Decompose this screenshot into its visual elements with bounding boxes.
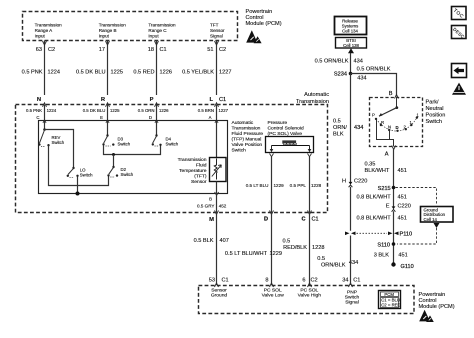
svg-text:Cell 134: Cell 134: [342, 29, 358, 34]
svg-text:0.8 BLK/WHT: 0.8 BLK/WHT: [356, 216, 391, 222]
0.35 BLK/WHT 451: [365, 162, 407, 174]
svg-text:1225: 1225: [110, 108, 120, 113]
svg-text:434: 434: [357, 76, 366, 82]
grommet P110 on BLK/WHT wire: [388, 232, 393, 236]
BTSI Cell 138 box: [336, 38, 367, 49]
svg-text:Input: Input: [35, 34, 46, 39]
svg-text:8: 8: [265, 278, 268, 284]
connector pin 18 C1: [155, 41, 159, 45]
wire D to PCM pin 8 (0.5 LT BLU/WHT 1229): [271, 213, 273, 286]
svg-text:Signal: Signal: [210, 34, 223, 39]
svg-text:Transmission: Transmission: [178, 157, 207, 163]
svg-text:Range A: Range A: [35, 28, 54, 33]
svg-text:451: 451: [398, 194, 407, 200]
warning triangle icon: [452, 83, 466, 95]
connector at PNP box bottom: [392, 146, 396, 150]
svg-text:Automatic: Automatic: [304, 92, 329, 98]
svg-text:0.5 DK BLU: 0.5 DK BLU: [83, 108, 106, 113]
junction dot on box bottom: [76, 192, 80, 196]
TOC button: [452, 7, 467, 20]
svg-text:Range C: Range C: [148, 28, 167, 33]
svg-text:53: 53: [209, 278, 215, 284]
svg-text:0.5 PPL: 0.5 PPL: [290, 183, 307, 188]
svg-text:P: P: [150, 97, 154, 103]
svg-text:C1: C1: [222, 278, 229, 284]
svg-text:Ground: Ground: [211, 293, 228, 299]
PCM pin labels row: [36, 47, 226, 53]
connector node N pin C: [43, 103, 47, 107]
connector node C C1: [308, 211, 312, 215]
svg-text:Sensor: Sensor: [191, 179, 207, 185]
connector pin 63 C2: [43, 41, 47, 45]
svg-text:C1: C1: [353, 278, 360, 284]
ESD triangle top: [246, 30, 261, 43]
TFP switch name label: [232, 120, 264, 154]
wire REV output down and to D2: [49, 146, 109, 186]
svg-text:D: D: [149, 115, 152, 120]
grommet P110 on ORN/BLK wire: [345, 232, 350, 236]
arrow up into BTSI: [348, 48, 354, 53]
wire 63/C2 to N: [44, 41, 46, 96]
LT BLU / PPL labels: [246, 183, 322, 188]
back arrow button: [452, 64, 467, 78]
svg-text:34: 34: [342, 278, 348, 284]
svg-text:D: D: [396, 125, 399, 130]
svg-text:BLK: BLK: [333, 132, 344, 138]
terminal TFP switch input P: [155, 120, 158, 123]
svg-text:(TFT): (TFT): [194, 174, 207, 180]
D4 switch: [152, 134, 179, 146]
wire sensor to M: [216, 182, 218, 213]
svg-text:3 BLK: 3 BLK: [374, 253, 390, 259]
svg-text:51: 51: [207, 47, 213, 53]
svg-text:Switch: Switch: [232, 148, 247, 154]
svg-text:C: C: [36, 115, 39, 120]
connector at inner box bottom (sensor return): [215, 192, 219, 195]
svg-text:C220: C220: [354, 179, 367, 185]
svg-text:C2: C2: [219, 47, 226, 53]
svg-text:C2 = RED: C2 = RED: [381, 303, 400, 308]
svg-text:S110: S110: [377, 243, 390, 249]
svg-text:Cell 14: Cell 14: [424, 217, 438, 222]
svg-text:S215: S215: [378, 186, 391, 192]
svg-text:ORN/: ORN/: [333, 125, 347, 131]
branch wire S234 to PNP B: [351, 74, 397, 97]
svg-text:(TFP) Manual: (TFP) Manual: [232, 137, 262, 143]
svg-text:434: 434: [354, 125, 363, 131]
svg-text:1227: 1227: [219, 70, 231, 76]
in-box wire labels: [26, 108, 229, 120]
connector at PNP box top: [395, 95, 399, 99]
0.8 BLK/WHT 451 (2): [356, 216, 406, 222]
svg-text:BLK/WHT: BLK/WHT: [365, 168, 390, 174]
svg-text:18: 18: [148, 47, 154, 53]
svg-text:0.5 BRN: 0.5 BRN: [198, 108, 214, 113]
connector node P pin D: [155, 103, 159, 107]
svg-text:Temperature: Temperature: [179, 168, 207, 174]
Park/Neutral Position Switch dashed box: [370, 98, 423, 147]
0.5 ORN/BLK 434 label top: [315, 59, 363, 65]
PNP internal wiring: [377, 120, 394, 147]
connector PCM pin 6 C2: [308, 283, 312, 287]
svg-text:Valve High: Valve High: [298, 293, 322, 299]
Powertrain Control Module (PCM) label top: [246, 9, 282, 27]
svg-text:E: E: [386, 204, 390, 210]
svg-text:0.5 RED: 0.5 RED: [133, 70, 154, 76]
svg-text:P: P: [372, 113, 375, 118]
PNP rotary switch: [372, 98, 420, 133]
svg-text:N: N: [388, 125, 391, 130]
wire node N to REV switch (0.5 PNK 1224, pin C): [44, 105, 46, 130]
svg-text:0.5 PNK: 0.5 PNK: [22, 70, 43, 76]
svg-text:451: 451: [398, 216, 407, 222]
connector node L pin A: [215, 103, 219, 107]
svg-text:C1: C1: [219, 97, 226, 103]
bottom pin row: [209, 278, 361, 284]
DESC button: [452, 26, 467, 40]
terminal TFP switch input R: [106, 120, 109, 123]
svg-text:Valve Low: Valve Low: [262, 293, 285, 299]
svg-text:0.5: 0.5: [333, 119, 341, 125]
BLK/WHT wire down to G110: [393, 149, 395, 263]
svg-text:H: H: [342, 179, 346, 185]
svg-text:PCM: PCM: [384, 292, 394, 297]
svg-text:E: E: [100, 115, 103, 120]
solenoid pin connectors: [270, 154, 312, 157]
svg-text:Park/: Park/: [426, 100, 440, 106]
REV switch: [38, 128, 65, 146]
0.5 ORN/BLK 434 vertical label: [333, 119, 347, 138]
svg-text:G110: G110: [401, 264, 414, 270]
svg-text:1229: 1229: [270, 251, 282, 257]
svg-text:0.5: 0.5: [283, 239, 291, 245]
wire REV to LO feed: [45, 130, 74, 168]
svg-text:Switch: Switch: [426, 119, 442, 125]
Park/Neutral Position Switch label: [426, 100, 446, 126]
junction dot on bus: [112, 153, 115, 156]
svg-text:407: 407: [220, 238, 229, 244]
svg-text:C1: C1: [160, 47, 167, 53]
wire node R to D3 switch (0.5 DK BLU 1225, pin E): [107, 105, 109, 136]
svg-text:0.5 YEL/BLK: 0.5 YEL/BLK: [182, 70, 214, 76]
ESD triangle bottom: [419, 310, 434, 322]
svg-text:Module (PCM): Module (PCM): [246, 21, 282, 27]
svg-text:Switch: Switch: [52, 140, 65, 145]
connector PCM pin 53 C1: [215, 283, 219, 287]
connector PCM pin 8: [270, 283, 274, 287]
wire PC SOL high side to pin C (0.5 PPL 1228): [309, 157, 311, 213]
svg-text:RED/BLK: RED/BLK: [283, 245, 307, 251]
dashed S215 to ground cell box: [396, 188, 437, 205]
svg-text:0.5 GRY: 0.5 GRY: [197, 204, 215, 209]
wire PC SOL low side to pin D (0.5 LT BLU 1229): [271, 157, 273, 213]
wire node L to TFT sensor (0.5 BRN 1227, pin A): [216, 105, 218, 158]
svg-text:0.5 ORN/BLK: 0.5 ORN/BLK: [357, 67, 391, 73]
Powertrain Control Module (PCM) label bottom: [419, 292, 455, 310]
bottom PCM dashed box: [199, 286, 415, 314]
svg-text:452: 452: [219, 204, 227, 209]
svg-text:Transmission: Transmission: [148, 23, 176, 28]
svg-text:0.5 BLK: 0.5 BLK: [194, 238, 214, 244]
Automatic Transmission label: [296, 92, 329, 105]
PC SOL solenoid: [266, 137, 314, 153]
node letters N R P L: [37, 97, 226, 103]
svg-text:1224: 1224: [47, 108, 57, 113]
svg-text:ORN/BLK: ORN/BLK: [321, 262, 346, 268]
wire C to PCM pin 6 (0.5 RED/BLK 1228): [309, 213, 311, 286]
0.8 BLK/WHT 451 (1): [356, 194, 406, 200]
wire bus to D2: [113, 155, 115, 167]
wire labels 1224-1227: [22, 70, 232, 76]
svg-text:451: 451: [398, 253, 407, 259]
svg-text:6: 6: [302, 278, 305, 284]
M D C node letters: [209, 217, 319, 224]
svg-text:434: 434: [354, 59, 363, 65]
svg-text:Position: Position: [426, 113, 446, 119]
svg-text:N: N: [37, 97, 41, 103]
svg-text:Transmission: Transmission: [232, 126, 261, 132]
svg-text:C: C: [301, 217, 305, 223]
connector pin 51 C2: [215, 41, 219, 45]
svg-text:0.5 DK BLU: 0.5 DK BLU: [76, 70, 106, 76]
Release Systems Cell 134 box: [335, 17, 367, 35]
PC SOL valve label: [268, 120, 304, 137]
main ORN/BLK wire down: [350, 74, 352, 286]
H C220 inline connector: [342, 179, 367, 185]
svg-text:B: B: [209, 197, 212, 202]
connector node R pin E: [106, 103, 110, 107]
svg-text:Fluid: Fluid: [196, 163, 207, 169]
svg-text:1228: 1228: [311, 183, 322, 188]
svg-text:Cell 138: Cell 138: [343, 43, 359, 48]
svg-text:0.5 ORN: 0.5 ORN: [138, 108, 155, 113]
svg-text:1224: 1224: [48, 70, 60, 76]
connector pin 17: [106, 41, 110, 45]
svg-text:Switch: Switch: [121, 172, 134, 177]
svg-text:A: A: [209, 115, 212, 120]
svg-text:B: B: [389, 91, 393, 97]
PCM top dashed box: [23, 12, 238, 41]
wire 17 to R: [107, 41, 109, 96]
bottom wire labels: [194, 238, 359, 268]
svg-text:C2: C2: [311, 278, 318, 284]
LO switch: [67, 167, 93, 178]
svg-text:Input: Input: [99, 34, 110, 39]
svg-text:63: 63: [36, 47, 42, 53]
svg-text:Pressure: Pressure: [268, 120, 288, 126]
svg-text:17: 17: [99, 47, 105, 53]
svg-text:Module (PCM): Module (PCM): [419, 304, 455, 310]
svg-text:L: L: [209, 97, 213, 103]
svg-text:A: A: [385, 152, 389, 158]
Ground Distribution Cell 14 box: [421, 207, 454, 223]
svg-text:1227: 1227: [219, 108, 229, 113]
svg-text:0.5: 0.5: [317, 256, 325, 262]
3 BLK 451: [374, 253, 408, 259]
D3 switch: [102, 134, 130, 146]
svg-text:Input: Input: [148, 34, 159, 39]
svg-text:C220: C220: [398, 204, 411, 210]
connector node M: [215, 211, 219, 215]
wire 18/C1 to P: [156, 41, 158, 96]
svg-text:Switch: Switch: [118, 142, 131, 147]
svg-text:1225: 1225: [111, 70, 123, 76]
svg-text:0.5 ORN/BLK: 0.5 ORN/BLK: [315, 59, 349, 65]
svg-text:Neutral: Neutral: [426, 106, 444, 112]
connector node D: [270, 211, 274, 215]
svg-text:C2: C2: [48, 47, 55, 53]
svg-text:Transmission: Transmission: [35, 23, 63, 28]
PCM connector legend box: [379, 291, 401, 309]
svg-text:Automatic: Automatic: [232, 120, 254, 126]
TFP inner solid box: [39, 121, 228, 194]
svg-text:R: R: [381, 120, 384, 125]
TFT sensor thermistor: [210, 158, 227, 182]
svg-text:Fluid Pressure: Fluid Pressure: [232, 131, 264, 137]
dashed ground cell to S110: [397, 228, 437, 244]
wire BTSI down to S234: [350, 53, 352, 74]
connector PCM pin 34 C1: [349, 283, 353, 287]
svg-text:Range B: Range B: [99, 28, 117, 33]
svg-text:Valve Position: Valve Position: [232, 142, 263, 148]
svg-text:Transmission: Transmission: [99, 23, 127, 28]
svg-text:TFT: TFT: [210, 23, 219, 28]
svg-text:D: D: [264, 217, 268, 223]
svg-text:0.5 PNK: 0.5 PNK: [26, 108, 42, 113]
svg-text:M: M: [209, 217, 214, 223]
svg-text:0.5 LT BLU/WHT: 0.5 LT BLU/WHT: [225, 251, 268, 257]
svg-text:P110: P110: [400, 232, 413, 238]
svg-text:Control Solenoid: Control Solenoid: [268, 126, 304, 132]
svg-text:C1: C1: [312, 217, 319, 223]
0.5 GRY 452 label: [197, 204, 227, 209]
svg-text:0.35: 0.35: [365, 162, 376, 168]
D2 switch: [107, 166, 133, 177]
arrow down from ground cell box: [434, 223, 440, 228]
wire D3 output to bus: [104, 145, 161, 155]
svg-text:0.8 BLK/WHT: 0.8 BLK/WHT: [356, 194, 391, 200]
svg-text:S234: S234: [334, 72, 347, 78]
G110 ground: [391, 262, 395, 266]
terminal TFT sensor input L: [215, 120, 218, 123]
bottom PCM pin names: [211, 288, 360, 306]
TFT sensor label: [178, 157, 207, 185]
wire 51/C2 to L: [216, 41, 218, 96]
svg-text:0.5 LT BLU: 0.5 LT BLU: [246, 183, 269, 188]
Automatic Transmission dashed box: [16, 105, 328, 213]
svg-text:Switch: Switch: [80, 173, 93, 178]
svg-text:1228: 1228: [312, 245, 324, 251]
wire M to PCM pin 53 (0.5 BLK 407 sensor ground): [216, 213, 218, 286]
terminal TFP switch input N: [43, 120, 46, 123]
svg-text:Signal: Signal: [345, 300, 359, 306]
svg-text:451: 451: [398, 168, 407, 174]
svg-text:Switch: Switch: [166, 142, 179, 147]
svg-text:1229: 1229: [274, 183, 285, 188]
svg-text:1226: 1226: [160, 70, 172, 76]
wire LO output to bottom bus: [77, 177, 79, 195]
wire node P to D4 switch (0.5 ORN 1226, pin D): [156, 105, 158, 136]
PCM output names: [35, 23, 225, 39]
svg-text:1226: 1226: [159, 108, 169, 113]
svg-text:Sensor: Sensor: [210, 28, 225, 33]
E C220 inline connector: [386, 204, 411, 210]
